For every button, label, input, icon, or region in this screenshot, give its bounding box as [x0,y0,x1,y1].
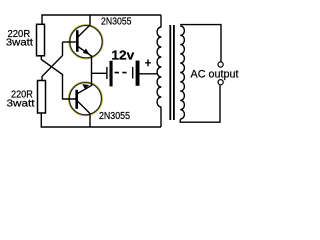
svg-text:2N3055: 2N3055 [101,17,132,28]
svg-text:AC output: AC output [191,68,239,80]
svg-text:2N3055: 2N3055 [99,111,130,122]
svg-text:3watt: 3watt [7,98,35,109]
svg-text:12v: 12v [111,47,135,62]
svg-text:3watt: 3watt [6,37,33,48]
